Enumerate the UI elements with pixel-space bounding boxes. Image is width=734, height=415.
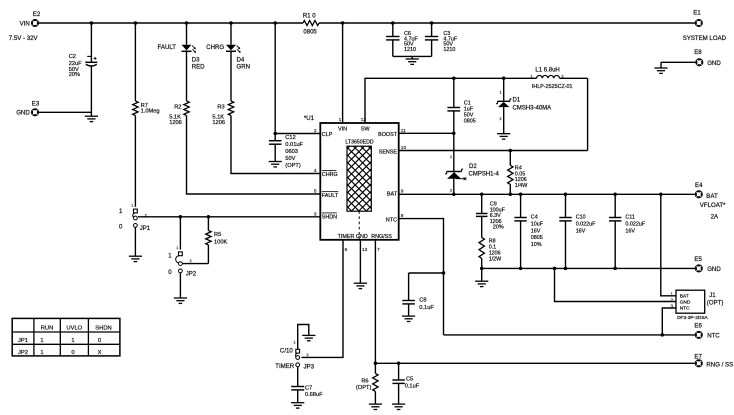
svg-text:CLP: CLP xyxy=(322,132,333,138)
svg-text:L1 6.8uH: L1 6.8uH xyxy=(535,68,559,74)
svg-text:VIN: VIN xyxy=(20,21,30,28)
svg-text:JP1: JP1 xyxy=(140,225,151,232)
resistor R7 xyxy=(133,101,160,116)
capacitor C5 xyxy=(392,376,419,389)
junction VIN rail - C6 xyxy=(391,21,395,25)
wire U1 NTC pin to NTC net xyxy=(399,219,444,335)
svg-text:E5: E5 xyxy=(694,256,702,263)
terminal E8 xyxy=(694,49,721,67)
svg-text:0603: 0603 xyxy=(285,149,298,155)
wire C1 bottom xyxy=(453,111,455,133)
wire C8 bottom xyxy=(408,304,410,316)
svg-text:RNG/SS: RNG/SS xyxy=(371,234,392,240)
ground (C2/E3) xyxy=(85,112,98,121)
svg-text:SW: SW xyxy=(361,126,371,132)
wire RNG/SS net xyxy=(375,362,695,364)
wire D1 bottom xyxy=(503,107,505,133)
svg-text:1/4W: 1/4W xyxy=(515,183,528,189)
svg-text:50V: 50V xyxy=(285,156,295,162)
wire BOOST net xyxy=(399,132,454,134)
terminal E5 xyxy=(694,256,721,273)
wire J1 NTC pin xyxy=(662,308,676,335)
svg-text:R3: R3 xyxy=(217,104,224,110)
svg-text:10uF: 10uF xyxy=(531,221,544,227)
svg-text:CHRG: CHRG xyxy=(322,172,338,178)
svg-text:1: 1 xyxy=(450,155,452,159)
terminal E1 xyxy=(683,10,727,42)
capacitor C9 xyxy=(476,201,506,230)
wire C6-C3 ground bus xyxy=(393,56,432,58)
svg-text:100K: 100K xyxy=(214,239,227,245)
resistor R8 xyxy=(479,237,502,262)
capacitor C4 xyxy=(514,215,543,249)
junction VIN rail - C12 xyxy=(273,21,277,25)
svg-text:SHDN: SHDN xyxy=(95,326,111,332)
svg-text:C5: C5 xyxy=(406,376,413,382)
diode D1 xyxy=(496,91,551,122)
wire R5 bottom xyxy=(207,245,209,264)
wire GND net xyxy=(482,267,696,269)
svg-text:VFLOAT*: VFLOAT* xyxy=(700,202,726,209)
svg-text:C12: C12 xyxy=(285,135,295,141)
wire C2 top xyxy=(90,23,92,62)
svg-text:*U1: *U1 xyxy=(304,115,315,122)
wire C2 bottom xyxy=(90,66,92,112)
svg-text:(OPT): (OPT) xyxy=(707,300,724,307)
resistor R3 xyxy=(212,101,233,126)
svg-text:GND: GND xyxy=(16,110,30,117)
svg-text:1206: 1206 xyxy=(212,120,225,126)
U1 pin number 8 xyxy=(401,213,404,219)
wire C11 bottom xyxy=(614,221,616,269)
svg-text:E1: E1 xyxy=(693,10,701,17)
svg-text:20%: 20% xyxy=(69,72,80,78)
wire R4 top xyxy=(509,151,511,166)
svg-text:D1: D1 xyxy=(513,97,521,103)
ground (C6/C3) xyxy=(406,59,419,64)
svg-text:0805: 0805 xyxy=(303,30,317,36)
U1 pin number 12 xyxy=(361,117,367,123)
ground (C12) xyxy=(269,162,282,167)
ground (R8) xyxy=(475,281,488,286)
U1 pin label BAT xyxy=(387,192,398,198)
wire E8 to ground xyxy=(661,62,696,68)
svg-text:2: 2 xyxy=(500,117,502,121)
junction RNG/SS - C5 xyxy=(397,362,401,366)
wire R3 to U1 CHRG pin xyxy=(231,116,320,174)
svg-text:16V: 16V xyxy=(576,228,586,234)
svg-text:DF3-3P-2DSA: DF3-3P-2DSA xyxy=(677,315,708,321)
svg-text:1: 1 xyxy=(40,350,43,356)
wire BAT net xyxy=(399,193,696,195)
U1 pin number 2 xyxy=(314,128,317,134)
svg-text:E6: E6 xyxy=(694,322,702,329)
svg-text:1: 1 xyxy=(71,338,74,344)
U1 pin number 3 xyxy=(314,212,317,218)
U1 pin label CHRG xyxy=(322,171,338,179)
svg-text:0.022uF: 0.022uF xyxy=(625,221,645,227)
svg-text:R2: R2 xyxy=(174,104,181,110)
wire D4 top xyxy=(230,23,232,45)
svg-text:D3: D3 xyxy=(192,57,200,64)
wire C12 bottom xyxy=(274,144,276,161)
wire JP3 bottom to C7 xyxy=(297,367,299,387)
jumper JP2 xyxy=(168,246,197,277)
svg-text:D4: D4 xyxy=(237,57,245,64)
U1 pin label NTC xyxy=(386,218,397,224)
capacitor C6 xyxy=(386,31,418,53)
wire C5 bottom xyxy=(398,383,400,404)
svg-text:16V: 16V xyxy=(625,228,635,234)
wire R5 top xyxy=(207,217,209,231)
wire R4 bottom xyxy=(509,184,511,194)
svg-text:(OPT): (OPT) xyxy=(356,385,372,391)
junction SENSE - R4 xyxy=(509,149,513,153)
svg-text:1: 1 xyxy=(500,91,502,95)
U1 pin number 7 xyxy=(377,247,380,253)
svg-text:FAULT: FAULT xyxy=(322,193,339,199)
svg-text:C7: C7 xyxy=(305,386,312,392)
ground (D1) xyxy=(497,134,510,139)
U1 pin number 13 xyxy=(362,247,368,253)
wire C9 top xyxy=(481,194,483,213)
svg-text:C2: C2 xyxy=(69,54,76,60)
wire SENSE net xyxy=(399,150,588,152)
svg-text:C10: C10 xyxy=(576,215,586,221)
svg-text:RUN: RUN xyxy=(41,326,54,332)
ground (E8) xyxy=(654,68,667,73)
U1 pin number 11 xyxy=(401,128,406,134)
wire JP2 riser xyxy=(179,217,181,250)
svg-text:0805: 0805 xyxy=(531,235,543,241)
capacitor C11 xyxy=(609,215,646,235)
resistor R5 xyxy=(206,231,228,246)
svg-text:4: 4 xyxy=(314,168,317,174)
ground (C7) xyxy=(291,403,304,408)
svg-text:CMPSH1-4: CMPSH1-4 xyxy=(469,171,500,177)
svg-text:NTC: NTC xyxy=(707,332,720,339)
wire C3 top xyxy=(431,23,433,37)
svg-text:2: 2 xyxy=(450,189,452,193)
wire C9 to R8 xyxy=(481,216,483,237)
wire TIMER pin to JP3 xyxy=(301,240,343,358)
svg-text:RED: RED xyxy=(192,64,205,71)
wire D2 top xyxy=(453,133,455,171)
junction SHDN - JP2 xyxy=(179,215,183,219)
jumper JP1 xyxy=(119,203,151,232)
junction BAT - C10 xyxy=(564,193,568,197)
svg-text:CHRG: CHRG xyxy=(206,44,224,51)
U1 pin number 6 xyxy=(345,247,348,253)
LED D3 xyxy=(158,44,206,70)
svg-text:GND: GND xyxy=(707,60,721,67)
svg-text:GND: GND xyxy=(680,300,691,306)
svg-text:0: 0 xyxy=(71,350,74,356)
svg-text:BAT: BAT xyxy=(680,293,689,299)
junction VIN rail - C2 xyxy=(90,21,94,25)
U1 pin number 4 xyxy=(314,168,317,174)
inductor L1 xyxy=(531,68,573,90)
svg-text:CMSH3-40MA: CMSH3-40MA xyxy=(513,105,552,111)
svg-text:5: 5 xyxy=(314,189,317,195)
U1 pin label VIN xyxy=(338,126,347,132)
svg-text:2: 2 xyxy=(307,353,309,357)
capacitor C8 xyxy=(402,297,434,310)
svg-text:1: 1 xyxy=(131,203,133,207)
wire D3 to R2 xyxy=(186,51,188,101)
svg-text:2: 2 xyxy=(314,128,317,134)
wire JP3 top to ground xyxy=(298,325,309,350)
wire R7 top xyxy=(134,23,136,101)
capacitor C3 xyxy=(425,31,458,53)
wire E3 to C2 ground node xyxy=(38,111,91,113)
resistor R6 xyxy=(356,373,378,391)
svg-text:1: 1 xyxy=(531,74,533,78)
svg-text:C11: C11 xyxy=(625,215,635,221)
label VFLOAT xyxy=(700,202,726,209)
label U1 part number xyxy=(345,139,373,145)
wire D3 top xyxy=(186,23,188,45)
U1 exposed pad (crosshatch) xyxy=(347,110,371,246)
ground (C8) xyxy=(402,316,415,321)
capacitor C2 xyxy=(69,54,98,78)
label *U1 xyxy=(304,115,315,122)
svg-text:0.022uF: 0.022uF xyxy=(576,221,596,227)
U1 pin number 5 xyxy=(314,189,317,195)
wire C1 top xyxy=(453,78,455,107)
wire D4 to R3 xyxy=(230,51,232,101)
terminal E4 xyxy=(695,182,718,200)
svg-text:C/10: C/10 xyxy=(280,348,293,355)
U1 pin label BOOST xyxy=(378,132,398,138)
wire JP2 mid to R5 xyxy=(182,263,208,265)
svg-text:D2: D2 xyxy=(469,164,477,170)
wire C10 top xyxy=(565,194,567,217)
wire NTC net xyxy=(444,334,696,336)
svg-text:GND: GND xyxy=(707,266,721,273)
LED D4 xyxy=(206,44,250,70)
junction BAT - J1 BAT xyxy=(659,193,663,197)
terminal E6 xyxy=(694,322,720,339)
svg-text:GRN: GRN xyxy=(237,64,251,71)
svg-text:C4: C4 xyxy=(531,215,538,221)
diode D2 xyxy=(445,155,499,193)
svg-text:0.1uF: 0.1uF xyxy=(405,383,420,389)
svg-text:GND: GND xyxy=(356,234,368,240)
op-amp U1 outline (LT3650EDD) xyxy=(320,123,398,240)
svg-text:FAULT: FAULT xyxy=(158,44,177,51)
wire R7 to JP1 xyxy=(134,116,136,207)
wire C3 bottom xyxy=(431,40,433,57)
svg-text:(OPT): (OPT) xyxy=(285,163,301,169)
junction GND net - C4 xyxy=(519,267,523,271)
node VIN / wire VIN rail (E2 to R1) xyxy=(38,22,303,24)
ground (JP2) xyxy=(174,298,187,303)
junction BOOST - C1/D2 xyxy=(452,132,456,136)
wire VIN rail (R1 to E1) xyxy=(319,22,695,24)
svg-text:2: 2 xyxy=(190,259,192,263)
U1 exposed pad dashed stub xyxy=(358,211,360,240)
svg-text:E2: E2 xyxy=(33,11,41,18)
table jumper settings xyxy=(12,318,120,356)
capacitor C1 xyxy=(447,100,475,124)
ground (JP3) xyxy=(302,335,315,340)
svg-text:0805: 0805 xyxy=(464,118,476,124)
junction BAT - C4 xyxy=(519,193,523,197)
wire SW net right edge xyxy=(587,78,589,150)
wire U1 SW pin to SW net xyxy=(365,78,537,123)
svg-text:1: 1 xyxy=(176,246,178,250)
svg-text:7.5V - 32V: 7.5V - 32V xyxy=(9,35,39,42)
U1 pin label CLP xyxy=(322,132,333,138)
wire J1 BAT pin xyxy=(661,194,676,295)
U1 pin label SW xyxy=(361,126,371,132)
junction NTC net - J1 xyxy=(661,333,665,337)
connector J1 xyxy=(671,290,724,321)
svg-text:LT3650EDD: LT3650EDD xyxy=(345,139,373,145)
svg-text:7: 7 xyxy=(377,247,380,253)
ground (R6) xyxy=(369,404,382,409)
wire C4 top xyxy=(520,194,522,217)
wire C11 top xyxy=(614,194,616,217)
wire GND pin 13 xyxy=(359,240,361,283)
svg-text:0.68uF: 0.68uF xyxy=(305,392,323,398)
svg-text:0: 0 xyxy=(98,338,101,344)
svg-text:R5: R5 xyxy=(214,232,221,238)
junction SHDN - R5 xyxy=(207,215,211,219)
U1 pin label GND xyxy=(356,234,368,240)
wire JP1 bottom to ground xyxy=(134,227,136,256)
wire R6 top xyxy=(374,363,376,373)
svg-text:BAT: BAT xyxy=(387,192,398,198)
junction GND net - C10 xyxy=(564,267,568,271)
svg-text:JP2: JP2 xyxy=(186,270,197,277)
svg-text:1: 1 xyxy=(294,341,296,345)
svg-text:JP2: JP2 xyxy=(18,350,28,356)
resistor R2 xyxy=(169,101,189,126)
svg-text:0.1uF: 0.1uF xyxy=(419,305,434,311)
svg-text:16V: 16V xyxy=(531,228,541,234)
svg-text:BAT: BAT xyxy=(706,193,718,200)
junction VIN rail - D4 xyxy=(229,21,233,25)
junction VIN rail - U1 VIN pin xyxy=(341,21,345,25)
ground (U1 pin 13) xyxy=(354,283,367,288)
svg-text:1/2W: 1/2W xyxy=(489,257,502,263)
svg-text:1: 1 xyxy=(339,117,342,123)
wire C6 top xyxy=(392,23,394,37)
wire C4 bottom xyxy=(520,221,522,269)
wire R6 bottom xyxy=(374,391,376,404)
resistor R1 xyxy=(303,14,319,36)
svg-text:2A: 2A xyxy=(711,213,719,220)
terminal E7 xyxy=(694,353,733,368)
svg-text:6: 6 xyxy=(345,247,348,253)
jumper JP3 xyxy=(275,341,314,371)
wire D2 bottom xyxy=(453,179,455,195)
terminal E3 xyxy=(16,100,40,116)
svg-text:JP3: JP3 xyxy=(304,363,315,370)
U1 pin label FAULT xyxy=(322,192,339,200)
U1 pin label TIMER xyxy=(338,234,355,240)
U1 pin number 10 xyxy=(401,145,407,151)
capacitor C12 xyxy=(269,135,304,169)
junction SW - D1 xyxy=(502,77,506,81)
U1 pin number 1 xyxy=(339,117,342,123)
svg-text:R1 0: R1 0 xyxy=(303,14,316,20)
svg-text:J1: J1 xyxy=(709,292,716,299)
svg-text:X: X xyxy=(98,350,102,356)
U1 pin number 9 xyxy=(401,189,404,195)
svg-text:1.0Meg: 1.0Meg xyxy=(141,109,160,115)
capacitor C7 xyxy=(291,386,323,398)
ground (JP1) xyxy=(129,256,142,261)
junction BAT - C11 xyxy=(613,193,617,197)
capacitor C10 xyxy=(559,215,596,235)
junction RNG/SS - R6 xyxy=(374,362,378,366)
junction BAT - D2 xyxy=(452,193,456,197)
svg-text:SYSTEM LOAD: SYSTEM LOAD xyxy=(683,35,727,42)
label input voltage range xyxy=(9,35,39,42)
junction SW - C1 xyxy=(452,77,456,81)
wire RNG/SS pin down xyxy=(374,240,376,363)
U1 pin label SHDN xyxy=(322,213,337,221)
wire CLP to U1 xyxy=(275,133,320,135)
wire C8 tap xyxy=(409,272,444,274)
svg-text:20%: 20% xyxy=(493,225,504,231)
junction GND net - C11 xyxy=(613,267,617,271)
wire JP2 bottom to ground xyxy=(179,273,181,298)
U1 pin label RNG/SS xyxy=(371,234,392,240)
svg-text:SENSE: SENSE xyxy=(379,150,398,156)
U1 pin label SENSE xyxy=(379,150,398,156)
svg-text:E3: E3 xyxy=(32,100,40,107)
svg-text:NTC: NTC xyxy=(386,218,397,224)
junction VIN rail - D3 xyxy=(185,21,189,25)
svg-text:RNG / SS: RNG / SS xyxy=(706,361,733,368)
svg-text:1: 1 xyxy=(40,338,43,344)
svg-text:E4: E4 xyxy=(695,182,703,189)
wire C12 top xyxy=(274,23,276,141)
svg-text:UVLO: UVLO xyxy=(66,326,82,332)
resistor R4 xyxy=(508,165,529,189)
svg-text:VIN: VIN xyxy=(338,126,347,132)
junction BAT - C9 xyxy=(480,193,484,197)
wire L1 to right corner xyxy=(560,77,588,79)
wire C5 top xyxy=(398,363,400,380)
wire R2 to U1 FAULT pin xyxy=(187,116,321,195)
svg-text:JP1: JP1 xyxy=(18,338,28,344)
svg-text:1210: 1210 xyxy=(404,47,416,53)
svg-text:IHLP-2525CZ-01: IHLP-2525CZ-01 xyxy=(532,84,573,90)
wire R8 bottom xyxy=(481,258,483,281)
wire C8 top xyxy=(408,273,410,301)
wire C7 bottom xyxy=(297,390,299,403)
svg-text:0.01uF: 0.01uF xyxy=(285,142,303,148)
junction GND net - R8 xyxy=(480,267,484,271)
junction GND net - J1 xyxy=(553,267,557,271)
junction CLP - C12 xyxy=(273,132,277,136)
label 2A xyxy=(711,213,719,220)
svg-text:13: 13 xyxy=(362,247,368,253)
svg-text:SHDN: SHDN xyxy=(322,215,337,221)
wire D1 top xyxy=(503,78,505,101)
junction VIN rail - R7 xyxy=(134,21,138,25)
svg-text:10%: 10% xyxy=(531,242,542,248)
svg-text:C8: C8 xyxy=(419,297,426,303)
svg-text:E8: E8 xyxy=(694,49,702,56)
wire C10 bottom xyxy=(565,221,567,269)
svg-text:E7: E7 xyxy=(694,353,702,360)
